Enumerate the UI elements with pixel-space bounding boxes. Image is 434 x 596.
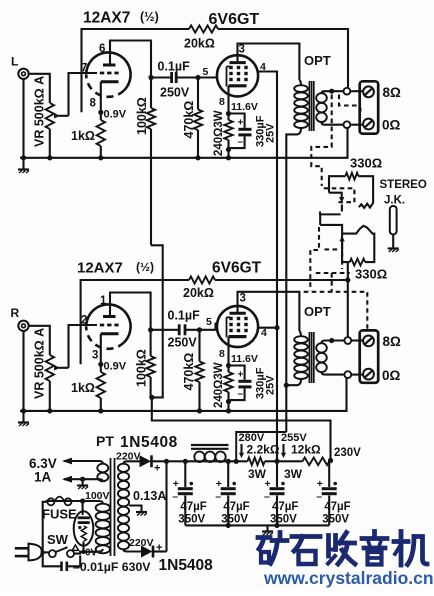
wire V1b plate pin1 to coupling node [110, 293, 151, 330]
svg-text:8: 8 [219, 96, 225, 108]
svg-text:0Ω: 0Ω [382, 368, 401, 383]
label 1k ch2 [71, 381, 95, 395]
pin 5 label V3 [206, 316, 212, 328]
svg-text:0.9V: 0.9V [104, 109, 127, 121]
wire 8-ohm terminal to screw ch1 [350, 90, 363, 92]
triode V1a plate bar [103, 64, 116, 67]
label 1N5408 top [120, 434, 178, 451]
label 100k ch1 [135, 97, 149, 135]
svg-text:3: 3 [239, 44, 245, 56]
label 0.9V ch2 [104, 361, 127, 373]
wire feedback rail ch1 (8-ohm tap to cathode) [82, 29, 190, 112]
terminal strip TB1 [360, 81, 379, 133]
label 6.3V [29, 456, 57, 471]
capacitor C3 0.1uF coupling ch2 [151, 324, 200, 335]
fuse F1 [46, 497, 72, 506]
label + D2 [156, 542, 162, 554]
pentode V2 grid frame [227, 67, 231, 87]
svg-text:8Ω: 8Ω [383, 85, 402, 100]
pin 8 label V2 [219, 96, 225, 108]
wire V3 screen pin4 to 255V rail [258, 327, 277, 329]
arrow 255V down [281, 444, 286, 458]
heater arrow bottom [62, 476, 72, 483]
svg-text:4: 4 [260, 61, 266, 73]
label 8-ohm ch2 [383, 334, 402, 349]
svg-text:0.1µF: 0.1µF [158, 60, 191, 74]
svg-text:1kΩ: 1kΩ [71, 381, 95, 395]
svg-text:330Ω: 330Ω [350, 156, 382, 171]
svg-text:+: + [216, 478, 222, 490]
wire V2 plate pin3 to OPT primary top [238, 44, 300, 81]
svg-text:230V: 230V [334, 447, 361, 459]
label 470k ch2 [182, 353, 196, 391]
capacitor C9 47uF 350V filter [316, 461, 337, 525]
capacitor C5 0.01uF line filter [43, 552, 80, 571]
svg-text:240Ω3W: 240Ω3W [213, 362, 225, 408]
ground symbol PT center tap [136, 512, 147, 516]
label 3W left [248, 467, 267, 481]
label - C2 [238, 137, 244, 148]
wire 100V tap [46, 501, 103, 504]
capacitor C6 47uF 350V filter [172, 461, 193, 525]
wire feedback rail ch2 left [81, 280, 189, 364]
ground symbol PSU [262, 525, 273, 535]
dashed wire jack ch2 to terminal strip [304, 292, 368, 329]
resistor R13 2.2k 3W dropper [248, 458, 265, 466]
pentode V2 grid dots [229, 66, 247, 81]
svg-text:8: 8 [219, 348, 225, 360]
stereo jack sleeve line ch1 [320, 212, 341, 215]
screw terminal 8-ohm ch1 [363, 86, 374, 97]
ground bus ch1 [20, 128, 348, 158]
resistor R9 100k plate load ch2 [146, 330, 154, 398]
node V3 cathode 11.6V [226, 363, 231, 368]
svg-text:SW: SW [47, 532, 69, 547]
svg-text:11.6V: 11.6V [231, 101, 258, 113]
screw terminal 0-ohm ch1 [363, 119, 374, 130]
ground symbol heater [77, 486, 88, 490]
capacitor C1 0.1uF coupling ch1 [151, 72, 198, 83]
label 0-ohm ch2 [382, 368, 401, 383]
triode V1b 12AX7 envelope [86, 304, 130, 348]
label L input [11, 55, 18, 69]
svg-text:1: 1 [100, 295, 107, 307]
wire OPT2 secondary bottom to 0-ohm [322, 372, 344, 374]
wire PT HV center tap to ground [129, 506, 141, 512]
terminal 0-ohm ch2 (open circle) [344, 371, 351, 378]
wire 6.3V bottom lead [64, 479, 103, 481]
wire jack L tip to volume pot [29, 74, 50, 103]
wire R8 to ground bus [100, 398, 102, 411]
transformer PT primary winding [96, 504, 110, 554]
stereo jack tip contact ch1 [359, 203, 373, 208]
node rectifier output [164, 459, 169, 464]
svg-text:8: 8 [90, 98, 97, 110]
switch SW contacts [49, 547, 74, 557]
label 330uF 25V ch2 [255, 367, 277, 399]
transformer OPT1 primary winding [294, 85, 308, 128]
wire sleeve link jack ch2 [319, 214, 321, 225]
transformer OPT2 secondary winding [316, 343, 327, 372]
pin 3 label V3 [240, 293, 246, 305]
svg-text:+: + [156, 542, 162, 554]
label 0-ohm ch1 [382, 118, 401, 133]
svg-text:240Ω3W: 240Ω3W [213, 110, 225, 156]
ground return wire PSU [185, 524, 329, 526]
stereo jack arm arrow ch2 [339, 236, 344, 249]
svg-text:OPT: OPT [304, 53, 331, 68]
svg-text:250V: 250V [160, 86, 190, 100]
svg-text:–: – [172, 491, 178, 503]
wire switch to 0V tap [74, 552, 96, 554]
svg-text:350V: 350V [322, 514, 349, 526]
dashed wire 8-ohm ch1 to jack [311, 95, 331, 187]
label - C4 [238, 389, 244, 400]
wire V3 cathode pin8 down [227, 337, 229, 372]
label 250V ch1 [160, 86, 190, 100]
transformer OPT1 secondary winding [316, 93, 327, 122]
capacitor C8 47uF 350V filter [264, 461, 285, 525]
label 6V6GT for V3 [212, 260, 262, 277]
wire V1a grid pin7 to pot wiper [69, 73, 98, 116]
wire grid junction to 6V6 pin5 ch2 [200, 324, 218, 330]
svg-text:0.13A: 0.13A [133, 489, 166, 503]
svg-text:PT: PT [96, 433, 114, 449]
wire V2 cathode pin8 down [227, 86, 229, 120]
label 0V [85, 548, 98, 559]
screw terminal 0-ohm ch2 [363, 369, 374, 380]
label 470k ch1 [182, 101, 196, 139]
svg-text:100kΩ: 100kΩ [135, 349, 149, 387]
svg-text:12kΩ: 12kΩ [291, 443, 321, 457]
resistor R4 240ohm 3W cathode ch1 [224, 120, 232, 158]
label OPT ch1 [304, 53, 331, 68]
node R4 C2 bottom join ch1 [226, 147, 231, 152]
label 12AX7 (1/2) for V1a [83, 10, 159, 27]
label 100V [85, 490, 110, 502]
svg-text:1N5408: 1N5408 [120, 434, 178, 451]
svg-text:OPT: OPT [304, 304, 331, 319]
node cathode V1b 0.9V [98, 362, 103, 367]
label SW [47, 532, 69, 547]
svg-text:+: + [238, 118, 244, 129]
label 20k ch1 [184, 37, 215, 51]
node plug-fuse junction [41, 550, 45, 554]
wire V2 screen pin4 to 255V rail [258, 72, 277, 328]
terminal 0-ohm ch1 (open circle) [344, 121, 351, 128]
label 3W right [284, 467, 303, 481]
label VR 500k A ch2 [33, 328, 47, 399]
svg-text:350V: 350V [221, 514, 248, 526]
svg-text:www.crystalradio.cn: www.crystalradio.cn [263, 568, 434, 588]
resistor R14 12k 3W dropper [303, 458, 330, 466]
svg-text:+: + [173, 478, 179, 490]
resistor R3 470k grid leak ch1 [194, 78, 202, 158]
label 12k [291, 443, 321, 457]
pin 3 label V2 [239, 44, 245, 56]
svg-text:220V: 220V [116, 451, 141, 463]
wire VR1 bottom to ground bus [49, 129, 51, 158]
svg-text:(½): (½) [140, 10, 159, 24]
pin 5 label V2 [203, 66, 209, 78]
svg-text:3W: 3W [284, 467, 303, 481]
svg-text:1A: 1A [34, 470, 52, 485]
label STEREO [380, 179, 427, 191]
node cap3 top [274, 459, 279, 464]
svg-text:2.2kΩ: 2.2kΩ [247, 443, 280, 457]
node V1b plate junction [148, 327, 153, 332]
svg-text:R: R [11, 306, 20, 320]
pentode V3 plate bar [230, 312, 246, 315]
pentode V3 grid frame [227, 317, 231, 337]
pin 8 label V3 [219, 348, 225, 360]
svg-text:100V: 100V [85, 490, 110, 502]
label PT [96, 433, 114, 449]
svg-text:VR 500kΩ A: VR 500kΩ A [33, 328, 47, 399]
resistor R2 100k plate load ch1 [147, 78, 155, 246]
transformer OPT2 core [309, 332, 313, 383]
label 47uF 350V cap1 [178, 501, 206, 526]
svg-text:5: 5 [206, 316, 212, 328]
triode V1b grid dashes pin2 [100, 324, 119, 327]
pentode V3 grid dots [229, 317, 247, 332]
svg-text:25V: 25V [265, 375, 277, 395]
svg-text:–: – [264, 491, 270, 503]
ground symbol ch1 [18, 158, 29, 173]
node 280V tap [234, 459, 239, 464]
label 330uF 25V ch1 [255, 115, 277, 147]
label 47uF 350V cap2 [221, 501, 249, 526]
triode V1a 12AX7 envelope [86, 52, 130, 96]
label 220V bottom [129, 537, 154, 549]
label 2.2k 3W box [236, 432, 286, 461]
svg-text:0.9V: 0.9V [104, 361, 127, 373]
arrow 280V down [239, 444, 244, 458]
wire 100k ch1 B+ drop to lower section [151, 245, 163, 397]
resistor R8 1k cathode ch2 [97, 372, 105, 398]
wire feedback rail ch2 right [215, 279, 348, 281]
pentode V2 cathode bar [229, 84, 247, 87]
node V2 cathode 11.6V [226, 111, 231, 116]
svg-text:0Ω: 0Ω [382, 118, 401, 133]
pin 8 label V1a [90, 98, 97, 110]
pentode V3 cathode bar [229, 335, 247, 338]
pin 7 label V1a [81, 63, 87, 75]
wire V1a plate pin6 to coupling node [110, 41, 151, 78]
svg-text:J.K.: J.K. [384, 195, 405, 207]
label J.K. [384, 195, 405, 207]
svg-text:470kΩ: 470kΩ [182, 353, 196, 391]
pentode V2 plate bar [230, 61, 246, 64]
stereo jack plug body [390, 206, 397, 234]
label 0.01uF 630V [73, 560, 151, 574]
wire jack R tip to volume pot [29, 326, 50, 355]
wire OPT2 primary lead top [299, 331, 301, 336]
label VR 500k A ch1 [33, 76, 47, 147]
label R input [11, 306, 20, 320]
triode V1a grid dashes pin7 [100, 72, 119, 75]
wire grid junction to 6V6 pin5 [198, 76, 218, 78]
potentiometer VR1 wiper arrow [54, 113, 69, 118]
svg-text:–: – [316, 491, 322, 503]
label 230V [334, 447, 361, 459]
label 0.9V ch1 [104, 109, 127, 121]
svg-text:0.1µF: 0.1µF [168, 309, 201, 323]
label 11.6V ch2 [231, 353, 258, 365]
label 20k ch2 [183, 286, 214, 300]
resistor R1 1k cathode ch1 [97, 120, 105, 146]
transformer PT 6.3V winding [97, 464, 108, 482]
stereo jack contact plate ch2 [320, 225, 374, 262]
label 12AX7 (1/2) for V1b [77, 260, 154, 277]
pin 4 label V2 [260, 61, 266, 73]
svg-text:FUSE: FUSE [42, 507, 77, 522]
label 100k ch2 [135, 349, 149, 387]
node OPT2 primary to 280V rail [284, 383, 289, 388]
label 330 ohm top [350, 156, 382, 171]
resistor R10 470k grid leak ch2 [195, 330, 203, 411]
wire 8-ohm terminal to screw ch2 [351, 339, 363, 341]
svg-text:47µF: 47µF [223, 501, 249, 513]
svg-text:+: + [238, 370, 244, 381]
node OPT2 secondary 8-ohm junction [329, 338, 334, 343]
wire V3 plate pin3 to OPT primary top [238, 292, 300, 331]
resistor R7 330 ohm phones ch2 [342, 234, 365, 266]
transformer PT HV secondary winding [118, 464, 129, 550]
svg-text:470kΩ: 470kΩ [182, 101, 196, 139]
capacitor C7 47uF 350V filter [215, 461, 236, 525]
svg-text:VR 500kΩ A: VR 500kΩ A [33, 76, 47, 147]
dashed wire jack ch2 left leg [310, 227, 319, 291]
dashed wire jack ch2 cross rail [331, 273, 333, 292]
wire VR2 bottom to ground bus [49, 381, 51, 411]
triangle chassis mark [72, 545, 78, 550]
pilot lamp body [74, 511, 94, 545]
heater arrow top [62, 458, 72, 465]
pentode V3 6V6GT envelope [217, 306, 258, 347]
wire jack R sleeve to ground bus [22, 331, 24, 411]
label 47uF 350V cap3 [270, 501, 298, 526]
pin 2 label V1b [81, 315, 87, 327]
transformer OPT1 core [309, 81, 313, 131]
wire 6.3V top lead [64, 461, 103, 464]
potentiometer VR2 wiper arrow [54, 365, 69, 370]
label + C4 [238, 370, 244, 381]
transformer OPT2 primary winding [294, 336, 308, 379]
node 6V6 grid junction ch2 [197, 327, 202, 332]
dashed wire jack to terminal strip ch1 [339, 95, 361, 113]
svg-text:+: + [317, 478, 323, 490]
svg-text:+: + [265, 478, 271, 490]
svg-text:3: 3 [92, 350, 98, 362]
wire 0-ohm terminal to screw ch1 [350, 124, 363, 126]
wire jack L sleeve to ground bus [22, 79, 24, 158]
node OPT1 secondary 8-ohm junction [329, 89, 334, 94]
wire feedback rail ch1 right section [218, 29, 348, 88]
wire OPT1 secondary bottom to 0-ohm [322, 122, 344, 125]
svg-text:20kΩ: 20kΩ [184, 37, 215, 51]
dashed jack frame ch2 [316, 249, 350, 273]
svg-text:–0.01µF 630V: –0.01µF 630V [73, 560, 151, 574]
AC plug body [29, 544, 42, 561]
svg-text:350V: 350V [178, 514, 205, 526]
pin 1 label V1b [100, 295, 107, 307]
wire OPT1 secondary top to 8-ohm [322, 91, 344, 93]
wire OPT1 primary bottom to 280V rail [286, 128, 301, 432]
watermark CJK text [258, 532, 427, 566]
svg-text:5: 5 [203, 66, 209, 78]
label 280V [239, 432, 265, 444]
AC plug prongs [15, 548, 29, 556]
svg-text:25V: 25V [265, 123, 277, 143]
resistor R11 240ohm 3W cathode ch2 [224, 372, 232, 411]
pentode V2 6V6GT envelope [217, 55, 258, 96]
diode D2 1N5408 [141, 546, 167, 558]
svg-text:+: + [154, 463, 160, 475]
label 6V6GT for V2 [209, 11, 260, 28]
svg-text:12AX7: 12AX7 [83, 10, 130, 27]
capacitor C4 330uF 25V cathode bypass ch2 [229, 366, 252, 401]
label 0.13A [133, 489, 166, 503]
node R11 C4 bottom join ch2 [226, 399, 231, 404]
choke L1 core [191, 445, 229, 449]
dashed jack frame ch1 [324, 188, 355, 202]
triode V1b cathode bar [101, 332, 119, 335]
svg-text:(½): (½) [136, 260, 154, 274]
label + D1 [154, 463, 160, 475]
input jack J2 tip [18, 321, 28, 331]
wire lamp bottom to 0V line [82, 542, 84, 552]
potentiometer VR1 500k body [46, 103, 54, 129]
node 6.3V center tap [80, 477, 85, 482]
terminal 8-ohm ch1 (open circle) [344, 88, 351, 95]
ground symbol ch2 [18, 411, 29, 426]
wire R1 to ground bus [100, 146, 102, 158]
ground bus ch2 [20, 378, 347, 411]
node V1a plate junction [148, 75, 153, 80]
wire 6.3V center tap to ground [82, 479, 84, 485]
stereo jack arm ch1 [329, 193, 344, 212]
label 1N5408 bottom [159, 557, 214, 574]
node screen rail join ch2 [274, 325, 279, 330]
svg-text:L: L [11, 55, 18, 69]
resistor R12 20k feedback ch2 [189, 276, 215, 283]
svg-text:100kΩ: 100kΩ [135, 97, 149, 135]
capacitor C2 330uF 25V cathode bypass ch1 [229, 114, 252, 149]
terminal 8-ohm ch2 (open circle) [344, 337, 351, 344]
wire V1b grid pin2 to pot wiper [69, 325, 98, 368]
wire V1b cathode pin3 down [100, 334, 102, 372]
svg-text:1kΩ: 1kΩ [71, 129, 95, 143]
node 230V corner [328, 458, 333, 463]
junction dots ground bus ch2 [21, 408, 231, 413]
wire rail 2.2k to 12k [265, 460, 303, 462]
wire feedback rail ch2 down to 8-ohm [347, 280, 349, 340]
wire 0-ohm terminal to screw ch2 [351, 374, 363, 376]
svg-text:47µF: 47µF [272, 501, 298, 513]
wire V1a cathode pin8 down [100, 82, 102, 120]
pin 4 label V3 [261, 327, 267, 339]
wire PSU B+ rail [167, 460, 248, 462]
label OPT ch2 [304, 304, 331, 319]
watermark url [263, 568, 434, 588]
svg-text:–: – [238, 389, 244, 400]
transformer PT core [111, 458, 115, 556]
svg-text:47µF: 47µF [180, 501, 206, 513]
label 0.1uF ch2 [168, 309, 201, 323]
wire fuse to plug node [43, 502, 48, 553]
wire 100k ch2 down to B+ line [152, 397, 331, 460]
